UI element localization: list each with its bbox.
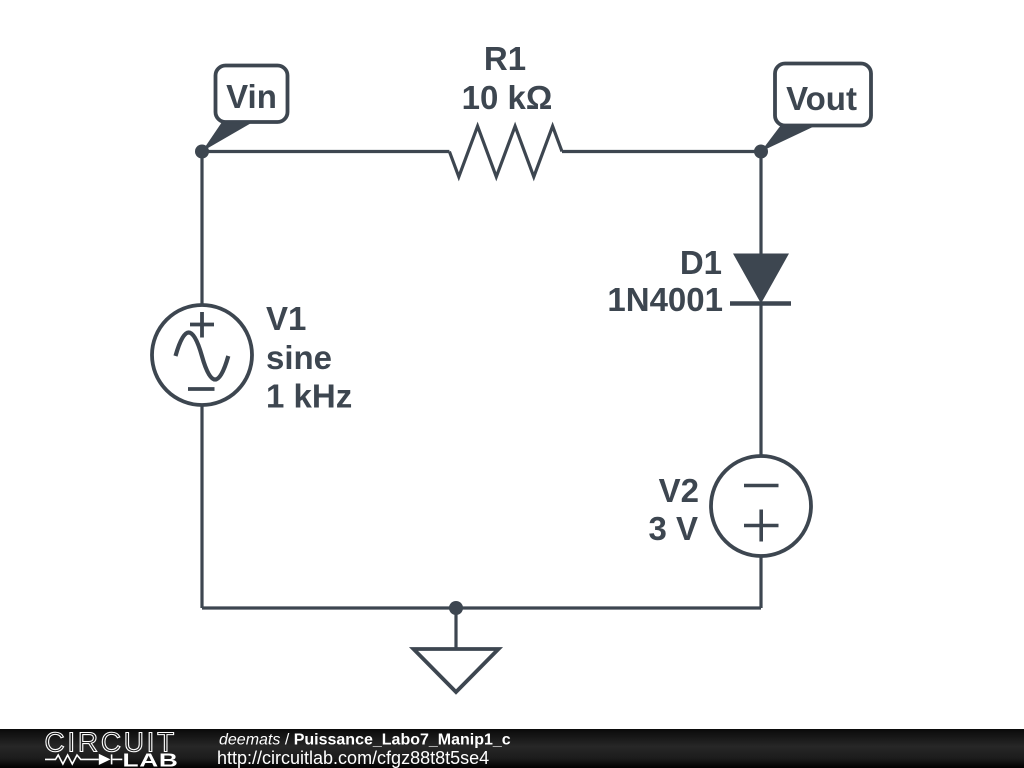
V1 minus sign — [188, 387, 215, 391]
diode D1 filled triangle — [733, 254, 789, 304]
V2 plus sign — [744, 510, 779, 542]
svg-text:R1: R1 — [484, 40, 526, 77]
svg-text:Vout: Vout — [786, 80, 857, 117]
logo diode triangle — [99, 754, 111, 765]
svg-text:V1: V1 — [266, 300, 306, 337]
svg-text:sine: sine — [266, 339, 332, 376]
node Vout dot — [754, 145, 768, 159]
node Vin flag box — [216, 66, 288, 123]
ground symbol triangle — [414, 649, 499, 692]
svg-text:Vin: Vin — [226, 78, 277, 115]
svg-text:http://circuitlab.com/cfgz88t8: http://circuitlab.com/cfgz88t8t5se4 — [217, 748, 489, 768]
wire top right: R1 to node Vout — [562, 150, 761, 153]
node Vout flag pointer — [761, 125, 817, 152]
svg-text:1 kHz: 1 kHz — [266, 378, 352, 415]
node Vin dot — [195, 145, 209, 159]
wire right vertical lower — [759, 556, 762, 608]
diode D1 cathode bar — [730, 301, 791, 306]
svg-text:deemats / Puissance_Labo7_Mani: deemats / Puissance_Labo7_Manip1_c — [219, 731, 511, 748]
V2 minus sign — [744, 484, 779, 488]
voltage source V1 circle — [152, 305, 252, 405]
wire left vertical lower — [200, 405, 203, 608]
wire right vertical middle — [759, 304, 762, 457]
wire left vertical upper — [200, 152, 203, 306]
node ground junction dot — [449, 601, 463, 615]
node Vout flag box — [775, 64, 871, 126]
V1 plus sign — [190, 312, 214, 338]
wire bottom — [202, 606, 761, 609]
node Vin flag pointer — [202, 122, 253, 152]
voltage source V2 circle — [711, 456, 811, 556]
svg-text:V2: V2 — [659, 472, 699, 509]
svg-text:1N4001: 1N4001 — [607, 281, 723, 318]
svg-text:D1: D1 — [680, 244, 722, 281]
svg-text:10 kΩ: 10 kΩ — [462, 79, 553, 116]
logo resistor-diode glyph — [45, 754, 122, 764]
wire ground stub — [454, 608, 457, 649]
svg-text:3 V: 3 V — [648, 510, 698, 547]
V1 sine wave — [176, 333, 229, 380]
footer bar — [0, 729, 1024, 768]
wire right vertical upper — [759, 152, 762, 256]
wire top left: node Vin to R1 — [202, 150, 449, 153]
svg-text:LAB: LAB — [123, 749, 179, 768]
resistor R1 — [449, 126, 562, 177]
